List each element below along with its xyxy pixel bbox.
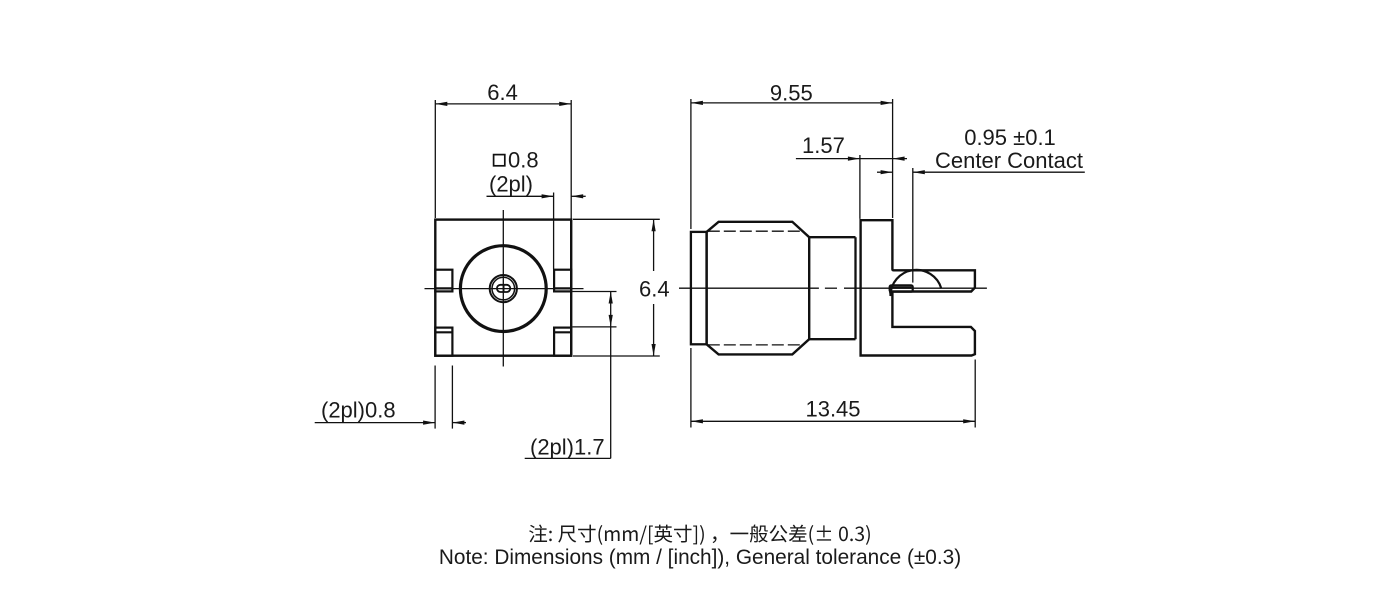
arrow right of 9.55	[881, 101, 893, 105]
dimension (2pl)0.8 dimension line	[315, 422, 466, 424]
dimension 13.45 dimension line	[691, 420, 975, 422]
note line 1 (Chinese): 注: 尺寸(mm/[英寸]) ，一般公差(± 0.3)	[529, 525, 870, 545]
horizontal centerline (side view)	[679, 287, 987, 289]
dimension 6.4 (top width) dimension line	[435, 103, 571, 105]
dimension (2pl)1.7 extension lines	[573, 292, 617, 327]
svg-text:Note: Dimensions (mm / [inch]): Note: Dimensions (mm / [inch]), General …	[439, 546, 961, 569]
horizontal centerline (front view)	[425, 288, 584, 290]
svg-text:(2pl)0.8: (2pl)0.8	[321, 398, 396, 423]
extension line left for 9.55	[690, 99, 692, 229]
hidden line bottom	[708, 344, 803, 346]
label 0.8 square leader line	[487, 195, 586, 197]
svg-text:Center Contact: Center Contact	[935, 148, 1083, 173]
extension line right for 9.55 / 1.57 / 0.95	[892, 99, 894, 218]
center contact pin	[890, 285, 913, 291]
dimension 1.57 dimension line	[796, 158, 907, 160]
arrow pointing left at x=912.8 (0.95)	[913, 170, 925, 174]
svg-text:(2pl): (2pl)	[489, 172, 533, 197]
arrow pointing right at x=435.1	[423, 421, 435, 425]
arrow pointing left at x=452.4	[452, 421, 464, 425]
extension line right for 6.4 top	[570, 100, 572, 219]
svg-text:6.4: 6.4	[639, 277, 670, 302]
insulator circle inner	[492, 277, 515, 300]
dimension 6.4 (right height) dimension line	[653, 219, 655, 356]
front rim	[691, 232, 707, 344]
center contact slot	[497, 285, 510, 292]
arrow right of 13.45	[963, 419, 975, 423]
arrow right of 6.4 top	[559, 102, 571, 106]
neck section	[809, 237, 855, 339]
lower-right notch	[554, 328, 571, 356]
svg-text:0.8: 0.8	[508, 148, 539, 173]
hidden line top	[708, 230, 803, 232]
mounting bracket outline	[861, 220, 975, 355]
dimension (2pl)1.7 dimension line and leader	[525, 292, 611, 459]
arrow pointing left at x=892.6	[893, 157, 905, 161]
upper-right notch	[554, 270, 571, 292]
extension line left for 6.4 top	[434, 100, 436, 218]
arrow down for 6.4 right	[652, 344, 656, 356]
vertical centerline (front view)	[502, 210, 504, 367]
svg-text:(2pl)1.7: (2pl)1.7	[530, 434, 605, 459]
upper-left notch	[435, 270, 452, 292]
outer interface circle	[460, 246, 546, 332]
dimension 0.95 leader under Center Contact	[877, 171, 1085, 173]
extension line for notch width 0.8	[553, 193, 555, 270]
svg-text:6.4: 6.4	[487, 80, 518, 105]
extension line left for 13.45	[690, 348, 692, 428]
extension line right for 13.45	[974, 360, 976, 428]
arrow pointing right at x=553.6	[542, 194, 554, 198]
front view square body outline	[435, 220, 571, 356]
arrow left of 13.45	[691, 419, 703, 423]
svg-text:9.55: 9.55	[770, 81, 813, 106]
extension line for 1.57 at x=859.9	[859, 155, 861, 219]
arrow pointing right at x=859.9	[848, 157, 860, 161]
dimension 6.4 (right height) extension lines	[573, 219, 660, 356]
lower-left notch	[435, 328, 452, 356]
svg-text:13.45: 13.45	[805, 397, 860, 422]
body outline	[707, 222, 810, 355]
svg-text:1.57: 1.57	[802, 133, 845, 158]
square symbol of label 0.8	[494, 155, 505, 166]
center contact dome	[890, 270, 941, 296]
arrow pointing left at x=571.2	[571, 194, 583, 198]
arrow up for 1.7	[609, 292, 613, 304]
insulator circle outer	[490, 275, 517, 302]
dome left edge thickening	[890, 288, 891, 296]
extension line at x=912.8 down to contact tip	[912, 168, 914, 283]
svg-text:0.95 ±0.1: 0.95 ±0.1	[964, 125, 1056, 150]
arrow down for 1.7	[609, 315, 613, 327]
dimension (2pl)0.8 extension lines	[435, 366, 452, 429]
dimension 9.55 dimension line	[691, 102, 893, 104]
arrow up for 6.4 right	[652, 219, 656, 231]
arrow pointing right at x=892.6 (0.95)	[881, 170, 893, 174]
arrow left of 9.55	[691, 101, 703, 105]
arrow left of 6.4 top	[435, 102, 447, 106]
